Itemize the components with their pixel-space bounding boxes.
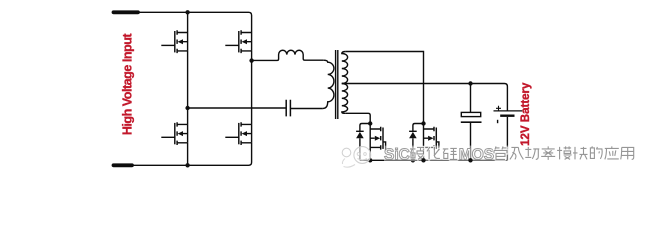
node A (left leg midpoint): [185, 106, 189, 110]
node bottom-rail junction: [185, 163, 189, 167]
wire Q1 drain: [187, 12, 189, 32]
battery B1 plus sign: [496, 106, 501, 111]
battery B1 bottom lead: [506, 117, 508, 160]
node Q5 drain junction: [368, 121, 372, 125]
node B (right leg midpoint): [249, 58, 253, 62]
wire Q3 drain: [187, 108, 189, 124]
wire Q6 drain: [423, 124, 425, 130]
transistor Q5 (sync rectifier left): [370, 127, 385, 151]
wire Q3 source: [187, 143, 189, 166]
transformer T1 secondary winding upper half: [342, 52, 348, 84]
node output cap tap: [468, 81, 472, 85]
node top-rail junction: [185, 10, 189, 14]
node Q6 drain junction: [421, 121, 425, 125]
wire secondary center tap (output + rail): [342, 84, 508, 111]
wire node to diode D2: [413, 124, 424, 132]
capacitor C2 bottom lead: [470, 122, 472, 160]
diode D1 (sync rect 1 antiparallel): [356, 130, 364, 132]
svg-text:High Voltage Input: High Voltage Input: [121, 33, 135, 136]
transistor Q6 (sync rectifier right): [424, 127, 439, 151]
wire secondary top tap to D2/Q6: [346, 52, 424, 124]
watermark backdrop wash: [384, 146, 637, 162]
node ground rail at C2 (redrawn): [468, 158, 472, 162]
watermark logo: [342, 147, 370, 168]
wire bottom rail: [132, 143, 252, 166]
wire Q6 source: [423, 147, 425, 160]
wire node to diode D1: [360, 124, 370, 132]
battery B1 minus tick: [497, 120, 499, 123]
svg-text:12V Battery: 12V Battery: [520, 82, 532, 146]
svg-text:SiC: SiC: [384, 146, 410, 163]
transistor Q1 (bridge high-side left): [161, 30, 187, 53]
wire node B to Q4 drain: [251, 61, 253, 125]
input terminal bottom: [114, 163, 133, 167]
wire secondary bottom tap to D1/Q5: [346, 113, 370, 123]
transformer T1 primary winding: [323, 60, 334, 108]
transistor Q2 (bridge high-side right): [225, 30, 251, 53]
transformer T1 secondary winding lower half: [342, 84, 348, 114]
node ground rail at D2: [411, 158, 415, 162]
capacitor C1 (resonant, series): [286, 100, 290, 117]
diode D2 (sync rect 2 antiparallel): [409, 130, 417, 132]
watermark text: [384, 146, 634, 163]
input terminal top: [114, 10, 139, 14]
wire D1 anode to ground rail: [359, 138, 361, 160]
wire Q5 source: [369, 147, 371, 160]
node ground rail at Q6 (redrawn): [421, 158, 425, 162]
battery B1 plates: [494, 110, 523, 112]
transistor Q3 (bridge low-side left): [161, 122, 187, 145]
node ground rail at Q5: [368, 158, 372, 162]
wire Q2 source to node B: [251, 51, 253, 61]
wire Q5 drain: [369, 124, 371, 130]
capacitor C2 (output) top lead: [470, 84, 472, 113]
wire D2 anode to ground rail: [412, 138, 414, 160]
wire Q1 source to node A: [187, 51, 189, 108]
wire node A to resonant capacitor: [188, 107, 287, 109]
wire secondary ground rail: [360, 159, 508, 161]
capacitor C2 plates: [461, 112, 480, 116]
transformer T1 core: [336, 50, 338, 119]
wire C1 to primary bottom: [290, 108, 322, 110]
svg-text:MOS: MOS: [459, 146, 494, 163]
inductor L1 (resonant, series): [252, 50, 324, 60]
transistor Q4 (bridge low-side right): [225, 122, 251, 145]
wire top rail: [138, 12, 252, 32]
